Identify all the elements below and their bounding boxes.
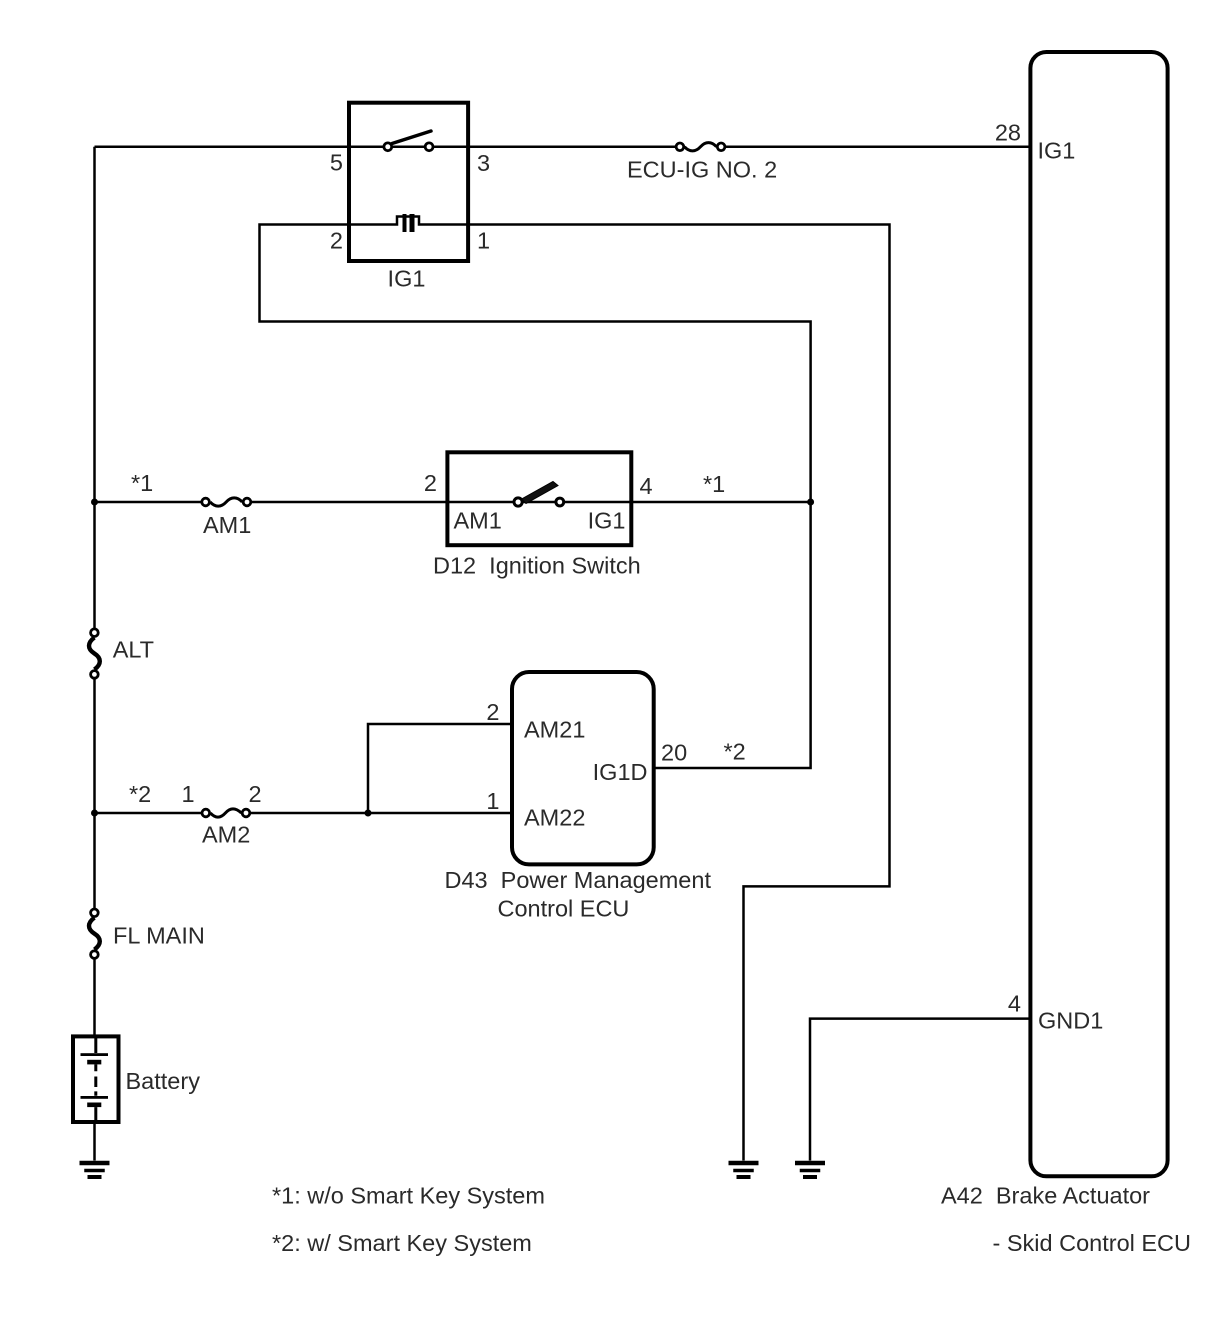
svg-text:2: 2 xyxy=(330,228,343,254)
ignition switch terminal AM1 xyxy=(454,508,502,534)
svg-text:IG1: IG1 xyxy=(1038,138,1076,164)
wire relay pin1 to ground xyxy=(468,225,889,1161)
wire AM21 branch pin 2 xyxy=(368,724,512,813)
relay pin number 3 xyxy=(477,150,490,176)
svg-text:Control ECU: Control ECU xyxy=(498,896,630,922)
fuse label AM1 xyxy=(203,512,251,538)
svg-text:*2: w/ Smart Key System: *2: w/ Smart Key System xyxy=(272,1230,532,1256)
svg-text:3: 3 xyxy=(477,150,490,176)
svg-text:1: 1 xyxy=(181,781,194,807)
label *1 near x810 xyxy=(703,471,725,497)
svg-text:FL MAIN: FL MAIN xyxy=(113,923,205,949)
svg-text:*1: w/o Smart Key System: *1: w/o Smart Key System xyxy=(272,1183,545,1209)
ground right (GND1) xyxy=(795,1161,825,1179)
svg-text:IG1: IG1 xyxy=(388,266,426,292)
svg-text:AM2: AM2 xyxy=(202,822,250,848)
pin label IG1 xyxy=(1038,138,1076,164)
ignition switch lever xyxy=(522,482,559,504)
D43 pin number 20 xyxy=(661,740,687,766)
D43 terminal AM21 xyxy=(524,717,585,743)
relay IG1 contact circles xyxy=(384,143,433,151)
svg-text:- Skid Control ECU: - Skid Control ECU xyxy=(993,1230,1192,1256)
fuse AM2 pin 2 xyxy=(248,781,261,807)
svg-text:*1: *1 xyxy=(703,471,725,497)
footnote *1 xyxy=(272,1183,545,1209)
label *2 near IG1D xyxy=(724,739,746,765)
svg-text:*2: *2 xyxy=(129,781,151,807)
fuse AM1 xyxy=(202,498,251,506)
relay pin number 2 xyxy=(330,228,343,254)
fuse AM2 pin 1 xyxy=(181,781,194,807)
ground left (relay coil return) xyxy=(729,1161,759,1179)
svg-text:2: 2 xyxy=(486,699,499,725)
svg-text:1: 1 xyxy=(486,788,499,814)
D43 pin number 2 xyxy=(486,699,499,725)
relay IG1 box xyxy=(349,103,468,261)
label ALT xyxy=(113,637,154,663)
wire battery positive vertical bus xyxy=(93,147,96,1037)
svg-text:AM22: AM22 xyxy=(524,805,585,831)
svg-text:ECU-IG NO. 2: ECU-IG NO. 2 xyxy=(627,157,777,183)
relay label IG1 xyxy=(388,266,426,292)
label D12 Ignition Switch xyxy=(433,553,641,579)
pin label GND1 xyxy=(1038,1008,1103,1034)
svg-text:D43 Power Management: D43 Power Management xyxy=(445,867,712,893)
svg-text:1: 1 xyxy=(477,228,490,254)
wire relay pin2 to x810 vertical to IG1D pin 20 xyxy=(260,225,811,769)
svg-text:Battery: Battery xyxy=(126,1068,201,1094)
pin number 28 xyxy=(995,120,1021,146)
svg-text:*2: *2 xyxy=(724,739,746,765)
ECU D43 box xyxy=(512,672,654,864)
svg-text:AM21: AM21 xyxy=(524,717,585,743)
node junction dot AM1 tap xyxy=(91,499,98,506)
label Battery xyxy=(126,1068,201,1094)
wire AM2 line to AM22 pin 1 xyxy=(95,812,513,815)
svg-text:GND1: GND1 xyxy=(1038,1008,1103,1034)
footnote *2 xyxy=(272,1230,532,1256)
fuse label AM2 xyxy=(202,822,250,848)
fuse label ECU-IG NO. 2 xyxy=(627,157,777,183)
label D43 Power Management Control ECU xyxy=(445,867,712,922)
wire AM1 line to ignition switch and *1 node xyxy=(95,501,811,504)
svg-text:2: 2 xyxy=(424,470,437,496)
battery cells symbol xyxy=(81,1036,109,1122)
node junction dot *1/*2 join at x810 xyxy=(807,499,814,506)
svg-text:4: 4 xyxy=(640,473,653,499)
svg-text:5: 5 xyxy=(330,150,343,176)
wire relay pin5 / pin3 horizontal to ECU-IG fuse and IG1 pin 28 xyxy=(95,146,1031,149)
ground below battery xyxy=(80,1161,110,1179)
svg-text:IG1D: IG1D xyxy=(593,759,648,785)
node junction dot AM21/AM22 branch xyxy=(365,810,372,817)
node junction dot AM2 tap xyxy=(91,810,98,817)
label Skid Control ECU xyxy=(993,1230,1192,1256)
svg-text:D12 Ignition Switch: D12 Ignition Switch xyxy=(433,553,641,579)
relay pin number 5 xyxy=(330,150,343,176)
svg-text:20: 20 xyxy=(661,740,687,766)
svg-text:4: 4 xyxy=(1008,991,1021,1017)
label A42 Brake Actuator xyxy=(941,1183,1150,1209)
relay pin number 1 xyxy=(477,228,490,254)
svg-text:ALT: ALT xyxy=(113,637,154,663)
svg-text:2: 2 xyxy=(248,781,261,807)
svg-text:AM1: AM1 xyxy=(203,512,251,538)
D43 terminal IG1D xyxy=(593,759,648,785)
svg-text:A42 Brake Actuator: A42 Brake Actuator xyxy=(941,1183,1150,1209)
D43 terminal AM22 xyxy=(524,805,585,831)
D43 pin number 1 xyxy=(486,788,499,814)
relay IG1 contact lever xyxy=(392,131,431,144)
svg-text:28: 28 xyxy=(995,120,1021,146)
ignition switch D12 box xyxy=(447,452,631,545)
label FL MAIN xyxy=(113,923,205,949)
fuse AM2 xyxy=(202,809,250,817)
ignition switch contact circles xyxy=(514,498,564,506)
fusible link FL MAIN xyxy=(89,909,100,958)
ignition switch pin 4 xyxy=(640,473,653,499)
ignition switch pin 2 xyxy=(424,470,437,496)
fuse ECU-IG NO. 2 xyxy=(676,143,725,151)
label *2 near AM2 xyxy=(129,781,151,807)
wire battery to ground xyxy=(93,1122,96,1161)
ignition switch terminal IG1 xyxy=(588,508,626,534)
connector A42 Brake Actuator box xyxy=(1030,52,1167,1176)
wire GND1 pin 4 to ground xyxy=(810,1019,1030,1161)
svg-text:AM1: AM1 xyxy=(454,508,502,534)
battery box xyxy=(73,1036,119,1122)
relay IG1 coil xyxy=(349,214,468,232)
svg-text:*1: *1 xyxy=(131,470,153,496)
label *1 near AM1 xyxy=(131,470,153,496)
svg-text:IG1: IG1 xyxy=(588,508,626,534)
fusible link ALT xyxy=(89,629,100,678)
pin number 4 GND1 xyxy=(1008,991,1021,1017)
